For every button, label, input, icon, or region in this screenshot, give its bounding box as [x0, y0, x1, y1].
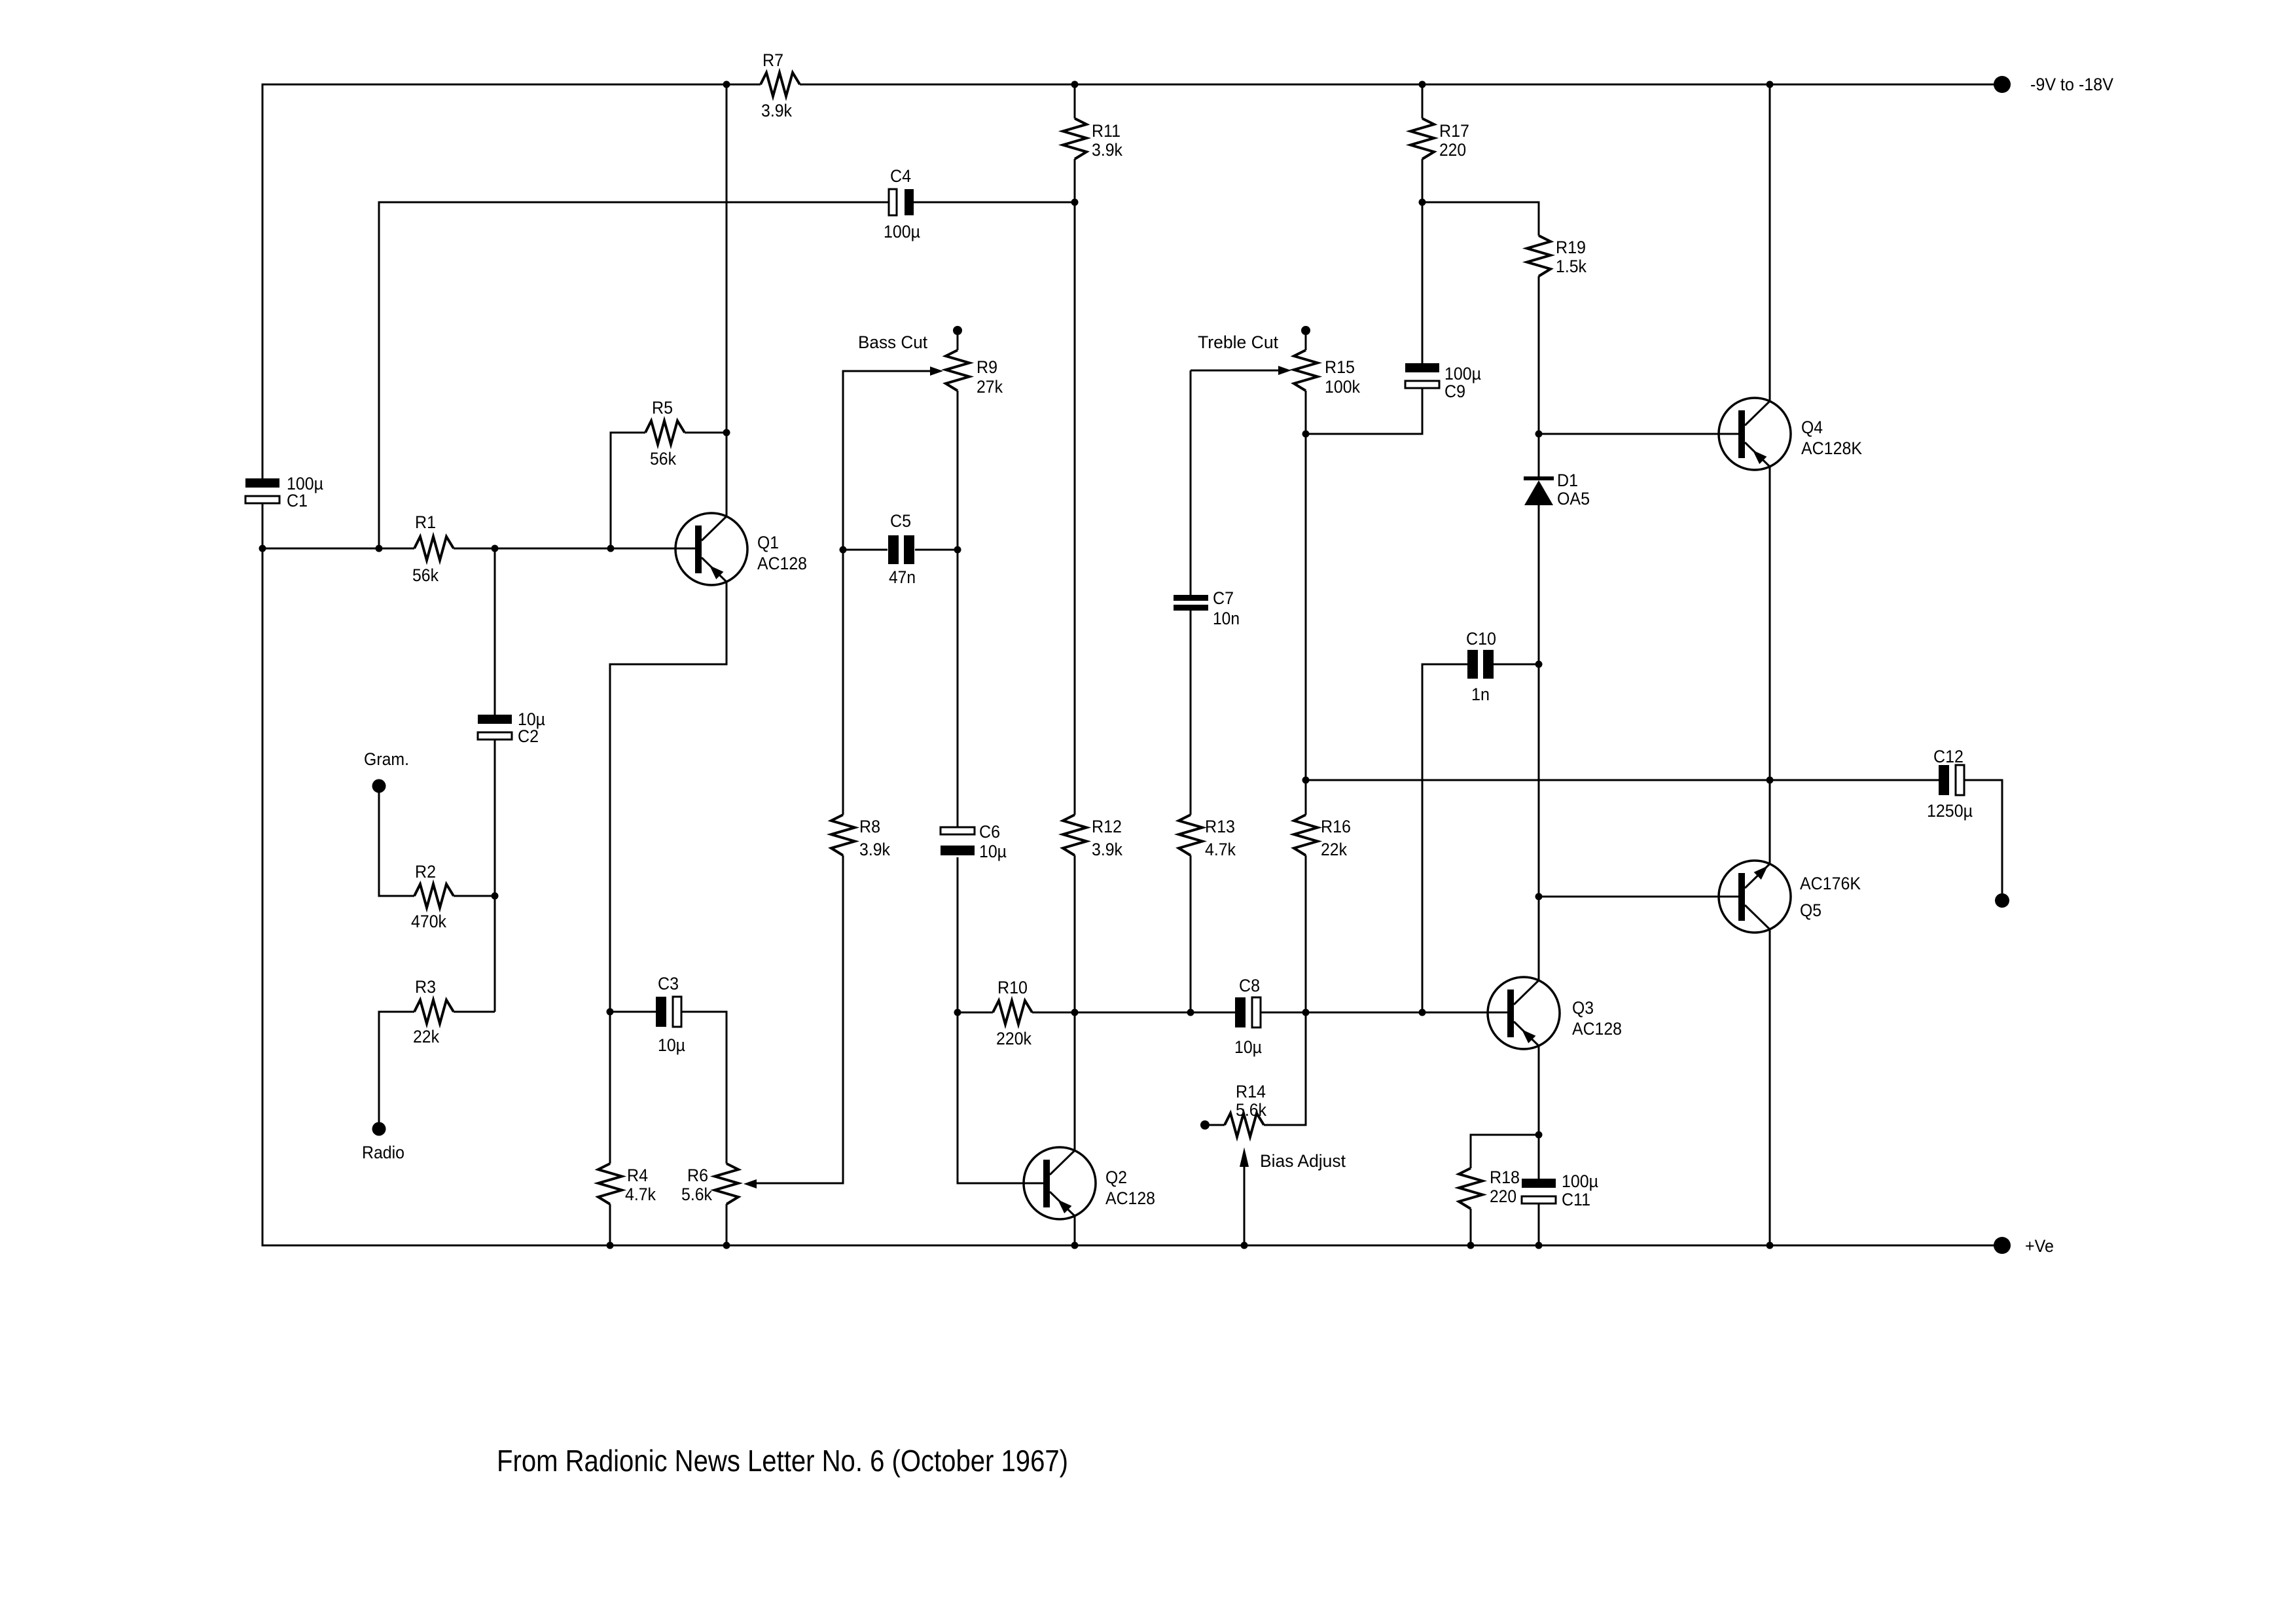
svg-text:100k: 100k — [1325, 377, 1360, 397]
wire R8 branch: C5 left node down through R8 to R6 wiper — [757, 550, 843, 1183]
wire Q3 emitter to R18 and C11, down to bottom rail — [1471, 1046, 1539, 1245]
transistor Q5 AC176K — [1719, 861, 1791, 933]
resistor R16 — [1294, 815, 1318, 855]
capacitor C2 — [478, 715, 512, 724]
junction dot Q3 emitter node — [1535, 1132, 1543, 1139]
wire C3 row: emitter line to C3 to R6 top, R6 bottom to rail — [610, 1012, 726, 1245]
wire C5 row — [843, 549, 958, 551]
wire Q1 collector up to top rail at R7 — [726, 84, 728, 516]
wire R9 pot terminal stub and bottom to C5 right node — [957, 335, 959, 550]
svg-text:5.6k: 5.6k — [681, 1185, 712, 1204]
terminal -9V supply — [1994, 76, 2011, 93]
resistor R5 — [645, 421, 685, 444]
wire R14 left terminal stub — [1210, 1124, 1225, 1126]
wire -9V top supply rail — [262, 84, 2002, 478]
wire R3 right to C2 branch — [454, 1011, 495, 1013]
terminal dot R15 top — [1301, 326, 1310, 335]
wire Q5 collector to bottom rail — [1769, 929, 1771, 1245]
svg-text:R8: R8 — [859, 817, 880, 836]
resistor R17 — [1410, 118, 1434, 159]
wire C2 vertical branch: input node down through C2 to R2/R3 junction — [494, 548, 496, 1012]
svg-text:Gram.: Gram. — [364, 749, 409, 769]
svg-text:AC176K: AC176K — [1800, 874, 1861, 893]
wire Q1 emitter down-left jog to R4 and bottom rail — [610, 582, 726, 1245]
capacitor C6 — [941, 827, 975, 834]
svg-text:5.6k: 5.6k — [1236, 1100, 1266, 1120]
svg-text:10n: 10n — [1213, 609, 1240, 628]
svg-text:R19: R19 — [1556, 238, 1586, 257]
svg-text:AC128: AC128 — [757, 554, 807, 573]
svg-text:4.7k: 4.7k — [1205, 840, 1236, 859]
wire R14 bias wiper from bottom rail — [1244, 1167, 1246, 1245]
potentiometer R6 — [715, 1164, 738, 1204]
wire Radio terminal to R3 — [379, 1012, 414, 1129]
capacitor C4 — [889, 189, 897, 215]
terminal dot R9 top — [953, 326, 962, 335]
junction dots R15 bottom node and Q4 base node — [1302, 431, 1310, 438]
svg-text:10µ: 10µ — [658, 1035, 685, 1055]
svg-text:56k: 56k — [650, 449, 676, 469]
junction dots input node row — [259, 545, 266, 552]
svg-text:Bias Adjust: Bias Adjust — [1260, 1151, 1346, 1171]
terminal Radio input — [372, 1122, 386, 1136]
junction dots C4/R11 node and R17/C9/R19 node — [1071, 199, 1079, 206]
svg-text:R5: R5 — [652, 398, 673, 418]
capacitor C7 — [1174, 595, 1208, 601]
capacitor C12 — [1939, 765, 1949, 795]
wire R5 feedback loop: base node up to R5 to collector line — [611, 433, 726, 548]
svg-text:R9: R9 — [977, 357, 997, 377]
wire R17 column: top rail through R17 to C9/R19 node — [1422, 84, 1424, 202]
resistor R10 — [993, 1001, 1032, 1024]
svg-text:10µ: 10µ — [1234, 1037, 1262, 1057]
resistor R7 — [761, 73, 800, 96]
svg-text:C9: C9 — [1444, 382, 1465, 401]
potentiometer R15 Treble Cut — [1294, 350, 1318, 391]
capacitor C8 — [1235, 997, 1246, 1027]
svg-text:1n: 1n — [1471, 685, 1490, 704]
svg-text:100µ: 100µ — [1562, 1171, 1598, 1191]
svg-text:AC128: AC128 — [1105, 1188, 1155, 1208]
resistor R11 — [1063, 118, 1086, 159]
svg-text:C12: C12 — [1933, 747, 1964, 766]
junction dots Q3 base row — [607, 1008, 614, 1016]
svg-text:R7: R7 — [762, 50, 783, 70]
svg-text:R14: R14 — [1236, 1082, 1266, 1101]
junction dots C5 row — [840, 546, 847, 554]
wire R10 row — [958, 1012, 1075, 1014]
capacitor C5 — [888, 535, 899, 564]
resistor R1 — [414, 537, 454, 560]
svg-text:Treble Cut: Treble Cut — [1198, 332, 1278, 352]
wire output row: R16 tee to C12 and output terminal — [1306, 780, 2002, 901]
wire Q5 base from D1 column tee — [1539, 896, 1738, 898]
svg-text:1.5k: 1.5k — [1556, 257, 1587, 276]
svg-text:100µ: 100µ — [1444, 364, 1481, 383]
transistor Q4 AC128K — [1719, 398, 1791, 470]
transistor Q1 AC128 — [675, 513, 747, 585]
svg-text:47n: 47n — [889, 567, 916, 587]
svg-text:OA5: OA5 — [1557, 489, 1590, 508]
wire R11/R12 column: top rail through R11, C4 node, R12, R10 node to Q2 collector — [1074, 84, 1076, 1150]
terminal output — [1995, 893, 2009, 908]
svg-text:AC128: AC128 — [1572, 1019, 1622, 1039]
wire R2 right to C2 branch — [454, 895, 495, 897]
svg-text:-9V to -18V: -9V to -18V — [2030, 75, 2113, 94]
junction dots on -9V rail — [723, 81, 730, 88]
svg-text:R15: R15 — [1325, 357, 1355, 377]
junction dot R5/collector node — [723, 429, 730, 437]
svg-text:Q1: Q1 — [757, 533, 779, 552]
wire R9 wiper feed: C5 left node up to Bass Cut pot wiper — [843, 371, 930, 550]
svg-text:C10: C10 — [1466, 629, 1496, 649]
resistor R12 — [1063, 815, 1086, 855]
potentiometer R14 Bias Adjust — [1225, 1113, 1264, 1137]
svg-text:R1: R1 — [415, 512, 436, 532]
svg-text:R3: R3 — [415, 977, 436, 997]
svg-text:10µ: 10µ — [979, 842, 1007, 861]
svg-text:+Ve: +Ve — [2025, 1236, 2054, 1256]
svg-text:R2: R2 — [415, 862, 436, 882]
svg-text:C7: C7 — [1213, 588, 1234, 608]
capacitor C11 — [1522, 1179, 1556, 1188]
capacitor C3 — [656, 997, 666, 1027]
svg-text:Q5: Q5 — [1800, 901, 1821, 920]
resistor R19 — [1527, 236, 1551, 276]
svg-text:From Radionic News Letter No.: From Radionic News Letter No. 6 (October… — [497, 1444, 1068, 1478]
svg-text:R10: R10 — [997, 978, 1028, 997]
wire input node row: C1 to R1 to C2 node to Q1 base — [262, 548, 695, 550]
wire Q4 base from D1 node — [1539, 433, 1738, 435]
junction dot R2/C2 node — [492, 893, 499, 900]
wire D1 column: Q4 base node down through D1, C10 node, Q5 base tee to Q3 collector — [1538, 434, 1540, 980]
svg-text:R16: R16 — [1321, 817, 1351, 836]
transistor Q3 AC128 — [1488, 977, 1560, 1049]
wire Q2 emitter to bottom rail — [1074, 1216, 1076, 1245]
svg-text:R12: R12 — [1092, 817, 1122, 836]
svg-text:Q2: Q2 — [1105, 1168, 1127, 1187]
wire C8 row: R10 node to C8 to Q3 base — [1075, 1012, 1507, 1014]
resistor R2 — [414, 884, 454, 908]
resistor R3 — [414, 1000, 454, 1024]
svg-text:C6: C6 — [979, 822, 1000, 842]
wire C6 branch: C5 right node down through C6 to R10 and Q2 base — [958, 550, 1043, 1183]
svg-text:220: 220 — [1439, 140, 1466, 160]
svg-text:C5: C5 — [890, 511, 911, 531]
svg-text:470k: 470k — [411, 912, 446, 931]
resistor R13 — [1179, 815, 1202, 855]
junction dots +Ve rail — [607, 1242, 614, 1249]
svg-text:C4: C4 — [890, 166, 911, 186]
svg-text:D1: D1 — [1557, 471, 1578, 490]
svg-text:R11: R11 — [1092, 121, 1121, 141]
terminal +Ve supply — [1994, 1237, 2011, 1254]
svg-text:3.9k: 3.9k — [1092, 140, 1122, 160]
svg-text:4.7k: 4.7k — [625, 1185, 656, 1204]
svg-text:22k: 22k — [413, 1027, 439, 1046]
svg-text:C3: C3 — [658, 974, 679, 993]
svg-text:22k: 22k — [1321, 840, 1347, 859]
terminal Gram input — [372, 779, 386, 793]
svg-text:Q3: Q3 — [1572, 998, 1594, 1018]
wire Q4 emitter / Q5 emitter column through output node — [1769, 467, 1771, 864]
svg-text:C1: C1 — [287, 491, 308, 510]
wire C4 feedback branch: input node up and right to C4/R11 node — [379, 202, 1075, 548]
wire Q4 collector to top rail — [1769, 84, 1771, 401]
capacitor C10 — [1467, 650, 1478, 679]
svg-text:C8: C8 — [1239, 976, 1260, 995]
resistor R8 — [831, 815, 855, 855]
svg-text:C2: C2 — [518, 726, 539, 746]
svg-text:C11: C11 — [1562, 1190, 1590, 1209]
wire R15/R16 column down to output tee, R16, C8 node, R14 corner — [1264, 434, 1306, 1125]
potentiometer R9 Bass Cut — [946, 350, 969, 391]
wire R15 pot terminal stub and bottom to C9 corner — [1306, 202, 1422, 434]
svg-text:Bass Cut: Bass Cut — [858, 332, 927, 352]
wire left border (C1 branch) and +Ve bottom supply rail — [262, 504, 2002, 1245]
svg-text:3.9k: 3.9k — [859, 840, 890, 859]
resistor R18 — [1459, 1168, 1482, 1209]
wire Gram terminal to R2 — [379, 786, 414, 896]
svg-text:R13: R13 — [1205, 817, 1235, 836]
svg-text:3.9k: 3.9k — [1092, 840, 1122, 859]
svg-text:220k: 220k — [996, 1029, 1031, 1048]
svg-text:R17: R17 — [1439, 121, 1469, 141]
transistor Q2 AC128 — [1024, 1147, 1096, 1219]
resistor R4 — [598, 1164, 622, 1204]
junction dot C10/D1 node — [1535, 661, 1543, 668]
svg-text:220: 220 — [1490, 1186, 1516, 1206]
svg-text:R6: R6 — [687, 1166, 708, 1185]
diode D1 OA5 — [1524, 476, 1554, 480]
junction dot Q5 base tee — [1535, 893, 1543, 901]
svg-text:AC128K: AC128K — [1801, 438, 1862, 458]
svg-text:Q4: Q4 — [1801, 418, 1823, 437]
svg-text:R18: R18 — [1490, 1168, 1520, 1187]
capacitor C1 — [245, 478, 279, 488]
svg-text:27k: 27k — [977, 377, 1003, 397]
junction dots output row — [1302, 777, 1310, 784]
svg-text:Radio: Radio — [362, 1143, 404, 1162]
svg-text:56k: 56k — [412, 565, 439, 585]
wire R19 branch: C9 node right and down through R19 to D1/Q4-base node — [1422, 202, 1539, 434]
wire treble branch: R15 wiper left and down through C7 and R13 to C8 row — [1191, 370, 1278, 1012]
svg-text:3.9k: 3.9k — [761, 101, 792, 120]
svg-text:1250µ: 1250µ — [1927, 801, 1973, 821]
svg-text:100µ: 100µ — [884, 222, 920, 241]
terminal dot R14 left — [1200, 1120, 1210, 1130]
wire C10 row and left branch down to Q3 base node — [1422, 664, 1539, 1012]
svg-text:R4: R4 — [627, 1166, 648, 1185]
capacitor C9 — [1405, 363, 1439, 372]
